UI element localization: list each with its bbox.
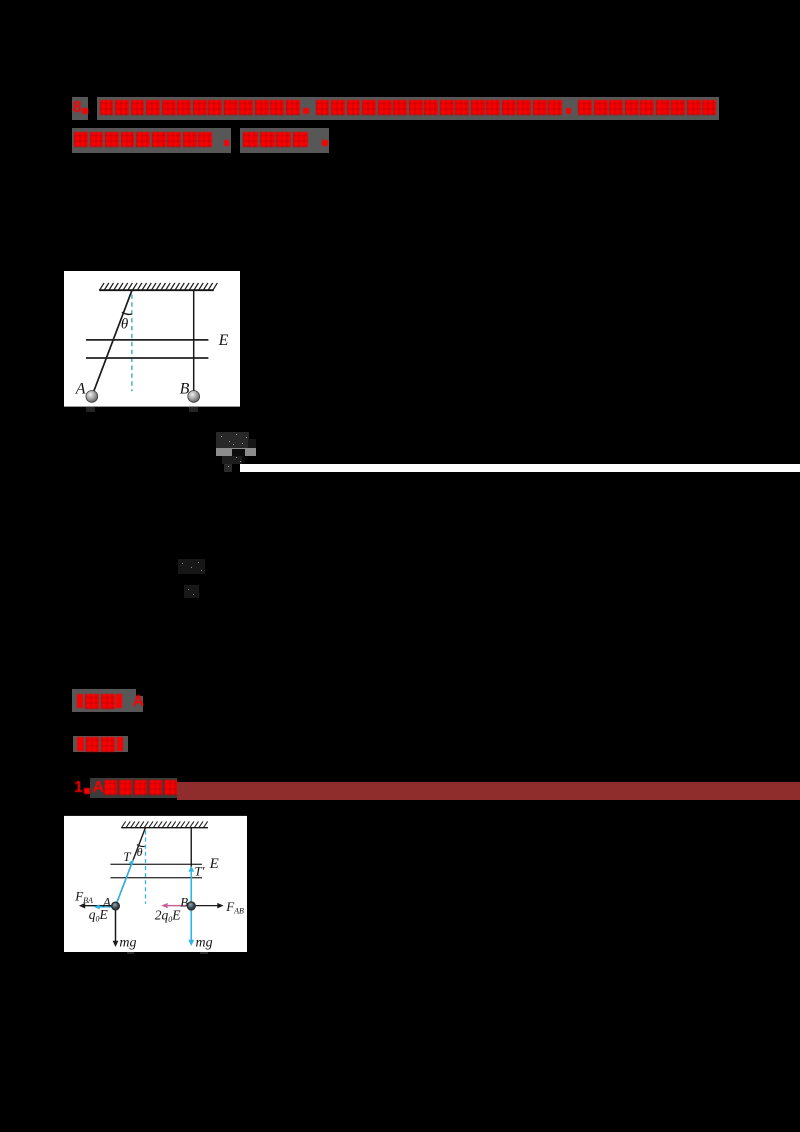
svg-text:mg: mg — [119, 935, 136, 950]
ceiling hatching — [99, 283, 217, 290]
capacitor plate line 2 — [110, 877, 202, 879]
svg-text:E: E — [217, 332, 228, 349]
figure 2: force analysis diagram — [64, 815, 247, 952]
svg-text:B: B — [180, 895, 188, 910]
smudge below ball A fig1 — [86, 407, 95, 412]
equation fragment: numerator block — [216, 432, 249, 448]
tension arrow T prime (up) — [190, 870, 192, 906]
equation fragment small 1 — [178, 559, 206, 574]
string of pendulum B — [192, 290, 194, 392]
ceiling line — [121, 827, 208, 829]
analysis line highlight — [73, 736, 128, 751]
ceiling hatching — [121, 821, 207, 827]
paragraph line 2: highlight run 1 — [72, 128, 231, 153]
svg-text:A: A — [102, 895, 111, 910]
equation fragment: dark notch — [232, 449, 245, 463]
angle tick — [137, 845, 145, 847]
ceiling line — [99, 289, 214, 291]
string of ball B — [190, 828, 192, 906]
equation fragment: fraction bar — [216, 448, 256, 455]
capacitor plate line 1 — [86, 339, 208, 341]
tension arrow T along string — [117, 863, 132, 902]
svg-text:T: T — [123, 849, 131, 864]
answer line highlight — [72, 689, 136, 712]
dashed vertical reference line — [131, 294, 133, 391]
capacitor plate line 2 — [86, 357, 208, 359]
force arrow F_BA (left) — [83, 905, 112, 907]
svg-text:θ: θ — [136, 845, 142, 859]
equation fragment: denominator — [222, 456, 242, 465]
string of pendulum A — [92, 290, 132, 396]
smudge below ball B fig1 — [189, 407, 198, 412]
step heading red band — [177, 782, 800, 800]
figure 1: two pendulums in field E — [64, 271, 241, 407]
force arrow 2q0E (pink, left) — [165, 905, 186, 907]
step heading dark band — [90, 778, 177, 798]
smudge below fig2 right — [200, 952, 208, 955]
ball B — [188, 390, 200, 402]
dashed vertical reference line — [144, 831, 146, 904]
equation fragment small 2 — [184, 585, 199, 599]
weight arrow mg of A — [114, 910, 116, 943]
weight arrow mg of B (cyan) — [190, 910, 192, 941]
force arrow F_AB (right) — [195, 905, 219, 907]
svg-text:B: B — [179, 380, 189, 397]
svg-text:T′: T′ — [194, 864, 204, 879]
force arrow q0E (cyan, left) — [97, 906, 111, 908]
svg-text:mg: mg — [195, 935, 212, 950]
string of ball A — [115, 828, 145, 906]
equation white strip — [240, 464, 800, 472]
paragraph line 2: highlight run 2 — [240, 128, 329, 153]
svg-text:A: A — [75, 380, 86, 397]
ball A — [111, 902, 119, 910]
angle tick — [122, 312, 132, 314]
svg-text:θ: θ — [121, 316, 129, 332]
ball A — [86, 390, 98, 402]
svg-text:E: E — [208, 856, 218, 872]
ball B — [187, 902, 195, 910]
paragraph line 1: item number highlight — [72, 97, 88, 120]
capacitor plate line 1 — [110, 863, 202, 865]
paragraph line 1: main text highlight — [97, 97, 720, 120]
smudge below fig2 left — [127, 952, 134, 955]
svg-text:2q0E: 2q0E — [154, 908, 181, 925]
